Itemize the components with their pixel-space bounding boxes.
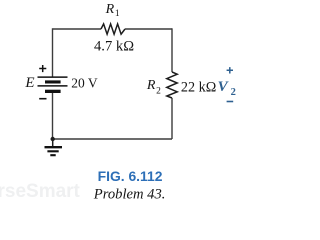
resistor R2	[167, 72, 177, 98]
svg-text:Problem 43.: Problem 43.	[93, 186, 166, 202]
junction node	[51, 137, 55, 141]
wire ground stub	[52, 139, 54, 146]
svg-text:rseSmart: rseSmart	[0, 181, 81, 202]
svg-text:22 kΩ: 22 kΩ	[181, 79, 216, 95]
wire top-left segment	[53, 28, 102, 30]
svg-text:R: R	[146, 78, 156, 93]
wire top-right segment	[125, 28, 172, 30]
svg-text:R: R	[105, 2, 115, 17]
wire left upper segment	[52, 28, 54, 77]
wire right lower segment	[171, 98, 173, 139]
wire right upper segment	[171, 28, 173, 72]
node V2 plus sign	[227, 67, 233, 73]
battery plus sign	[39, 65, 46, 72]
svg-text:V: V	[218, 79, 230, 95]
wire bottom segment	[53, 138, 172, 140]
node V2 minus sign	[227, 101, 234, 103]
svg-text:E: E	[24, 75, 34, 91]
resistor R1	[101, 24, 125, 34]
svg-text:4.7 kΩ: 4.7 kΩ	[94, 38, 134, 54]
ground	[45, 147, 63, 155]
svg-text:20 V: 20 V	[71, 76, 98, 91]
svg-text:2: 2	[156, 87, 161, 97]
svg-text:FIG. 6.112: FIG. 6.112	[98, 168, 163, 184]
battery minus sign	[39, 98, 46, 100]
wire left lower segment	[52, 93, 54, 139]
battery E	[38, 77, 68, 93]
svg-text:1: 1	[115, 9, 120, 19]
svg-text:2: 2	[231, 87, 236, 98]
